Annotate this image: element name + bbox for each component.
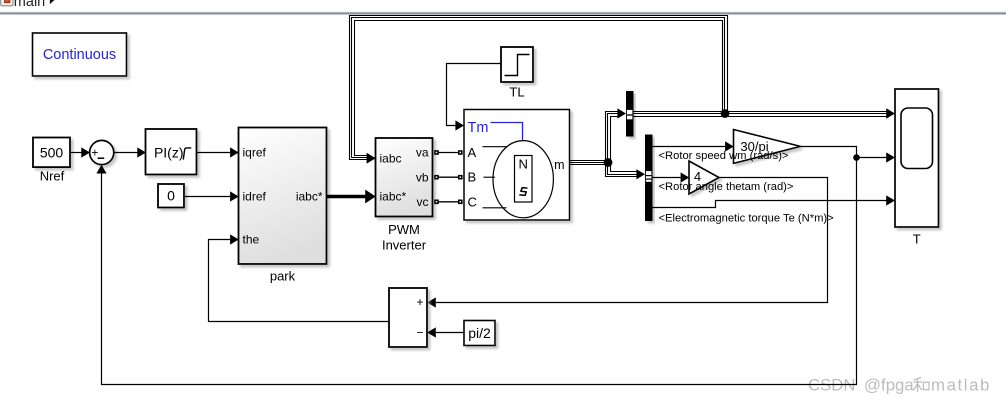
toolbar breadcrumb bar bbox=[0, 0, 1006, 15]
wire TL to machine Tm bbox=[447, 64, 502, 131]
scope block T bbox=[895, 89, 939, 227]
wire selector2 out2 to gain 4 bbox=[653, 172, 690, 182]
svg-text:iabc*: iabc* bbox=[380, 190, 407, 204]
svg-text:main: main bbox=[14, 0, 45, 10]
svg-text:iabc: iabc bbox=[380, 152, 402, 166]
watermark CSDN @fpga matlab bbox=[808, 376, 991, 395]
svg-text:+: + bbox=[91, 145, 98, 159]
svg-text:pi/2: pi/2 bbox=[468, 325, 491, 341]
svg-text:matlab: matlab bbox=[931, 376, 991, 395]
subsystem block park bbox=[239, 128, 327, 265]
thick vector wire park iabc* to PWM iabc* bbox=[327, 190, 376, 204]
constant block 500 bbox=[33, 138, 70, 168]
machine output bus m (triple) to junction bbox=[570, 161, 609, 165]
svg-text:Inverter: Inverter bbox=[382, 237, 427, 252]
svg-text:<Electromagnetic torque Te (N*: <Electromagnetic torque Te (N*m)> bbox=[659, 212, 834, 224]
wire 30/pi output to scope in2 and down to feedback bbox=[96, 147, 895, 385]
PI controller block PI(z) bbox=[146, 129, 197, 175]
subsystem block PWM Inverter bbox=[376, 138, 433, 217]
physical connection vc to C bbox=[434, 200, 462, 205]
svg-text:Continuous: Continuous bbox=[43, 47, 116, 63]
svg-text:Nref: Nref bbox=[40, 168, 65, 183]
feedback bus wire to PWM iabc (triple line) bbox=[350, 16, 728, 164]
constant block 0 bbox=[158, 184, 184, 208]
svg-text:A: A bbox=[468, 145, 477, 160]
svg-text:the: the bbox=[243, 233, 260, 247]
svg-text:TL: TL bbox=[509, 85, 524, 100]
svg-text:0: 0 bbox=[167, 188, 175, 204]
constant block pi/2 bbox=[464, 321, 495, 346]
junction node scope in2 bbox=[853, 154, 860, 161]
wire gain 4 output to sum2 plus input bbox=[427, 178, 827, 308]
bus wire junction up to bus selector 1 bbox=[606, 108, 627, 162]
bus wire junction down to bus selector 2 bbox=[606, 163, 646, 180]
svg-text:<Rotor speed wm (rad/s)>: <Rotor speed wm (rad/s)> bbox=[659, 150, 789, 162]
svg-text:idref: idref bbox=[243, 190, 267, 204]
breadcrumb arrow bbox=[50, 0, 55, 4]
svg-text:va: va bbox=[416, 146, 429, 160]
wire selector2 out1 to gain 30/pi bbox=[653, 141, 734, 151]
svg-text:vb: vb bbox=[416, 170, 429, 184]
wire sum to PI(z) bbox=[114, 147, 146, 157]
physical connection va to A bbox=[434, 150, 462, 155]
wire pi/2 to sum2 minus input bbox=[427, 327, 464, 337]
bus selector 2 bbox=[645, 135, 653, 222]
wire 0 to park idref bbox=[184, 191, 239, 201]
step block TL bbox=[501, 47, 533, 82]
svg-text:B: B bbox=[468, 170, 477, 185]
wire selector2 out3 to scope in3 bbox=[653, 195, 896, 207]
svg-text:−: − bbox=[416, 326, 423, 340]
sum junction round bbox=[90, 140, 114, 164]
powergui block Continuous bbox=[33, 33, 127, 76]
svg-text:CSDN: CSDN bbox=[808, 376, 856, 395]
PMSM machine block bbox=[464, 110, 570, 221]
gain block 4 bbox=[689, 161, 719, 194]
svg-text:C: C bbox=[468, 194, 477, 209]
svg-text:+: + bbox=[416, 295, 423, 309]
svg-text:@fpga: @fpga bbox=[864, 376, 914, 395]
junction node top bus bbox=[721, 109, 730, 118]
svg-text:<Rotor angle thetam (rad)>: <Rotor angle thetam (rad)> bbox=[659, 181, 794, 193]
svg-text:m: m bbox=[554, 158, 564, 172]
physical connection vb to B bbox=[434, 175, 462, 180]
bus selector 1 output bus to scope (triple) bbox=[634, 108, 896, 118]
bus selector 1 bbox=[626, 91, 634, 137]
svg-text:N: N bbox=[519, 156, 528, 171]
sum block 2 (rectangular, mirrored) bbox=[389, 288, 427, 347]
svg-text:T: T bbox=[913, 232, 921, 247]
svg-text:iabc*: iabc* bbox=[296, 190, 323, 204]
svg-text:park: park bbox=[270, 269, 296, 284]
svg-text:vc: vc bbox=[417, 195, 429, 209]
svg-text:500: 500 bbox=[40, 144, 64, 160]
svg-text:PI(z): PI(z) bbox=[154, 144, 184, 160]
wire sum2 output to park the bbox=[209, 234, 390, 321]
model icon (cut off at top) bbox=[1, 0, 13, 6]
wire 500 to sum bbox=[71, 147, 90, 157]
junction node m-bus bbox=[604, 158, 613, 167]
svg-text:iqref: iqref bbox=[243, 146, 267, 160]
svg-text:PWM: PWM bbox=[388, 222, 420, 237]
wire PI(z) to park iqref bbox=[197, 147, 239, 157]
svg-text:Tm: Tm bbox=[468, 120, 489, 136]
gain block 30/pi bbox=[734, 130, 801, 164]
